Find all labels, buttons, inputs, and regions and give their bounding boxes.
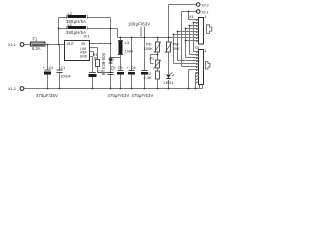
svg-text:20K: 20K xyxy=(173,46,180,51)
svg-text:470µF/63V: 470µF/63V xyxy=(108,93,130,98)
svg-text:1K: 1K xyxy=(93,56,98,60)
svg-text:1: 1 xyxy=(205,15,207,19)
svg-text:P1: P1 xyxy=(150,57,155,61)
svg-text:+: + xyxy=(43,66,45,70)
svg-text:F1: F1 xyxy=(33,37,39,42)
svg-text:2,3K: 2,3K xyxy=(144,75,153,80)
svg-text:6,3A: 6,3A xyxy=(32,46,41,51)
svg-text:IN: IN xyxy=(82,42,86,46)
svg-text:X1-2: X1-2 xyxy=(8,87,16,91)
svg-text:100µF/63V: 100µF/63V xyxy=(128,21,150,26)
svg-text:BYV29-500: BYV29-500 xyxy=(101,52,106,75)
svg-text:D1: D1 xyxy=(111,57,115,62)
svg-text:OUT: OUT xyxy=(67,42,74,46)
svg-text:X1-1: X1-1 xyxy=(8,43,16,47)
svg-text:IC1: IC1 xyxy=(84,33,91,38)
svg-text:1mH: 1mH xyxy=(125,49,134,54)
svg-text:470µF/35V: 470µF/35V xyxy=(36,93,58,98)
svg-text:L1: L1 xyxy=(68,22,73,27)
svg-text:X4: X4 xyxy=(189,15,194,19)
svg-text:C3: C3 xyxy=(111,66,115,71)
svg-text:C6: C6 xyxy=(131,66,136,70)
svg-text:L2: L2 xyxy=(68,11,73,16)
svg-text:C5: C5 xyxy=(118,66,123,70)
svg-text:100K: 100K xyxy=(144,46,154,51)
svg-text:470µF/63V: 470µF/63V xyxy=(132,93,154,98)
svg-text:X2-2: X2-2 xyxy=(202,3,209,7)
svg-text:X2-1: X2-1 xyxy=(202,10,209,14)
svg-text:L3: L3 xyxy=(125,40,130,45)
svg-text:LED1: LED1 xyxy=(164,80,175,85)
svg-text:C4: C4 xyxy=(49,66,54,70)
svg-text:GND: GND xyxy=(80,55,88,59)
svg-text:X5: X5 xyxy=(195,46,200,50)
svg-text:1: 1 xyxy=(205,49,207,53)
svg-text:+: + xyxy=(127,66,129,70)
svg-text:100nF: 100nF xyxy=(61,75,72,79)
svg-text:C1: C1 xyxy=(61,66,66,70)
